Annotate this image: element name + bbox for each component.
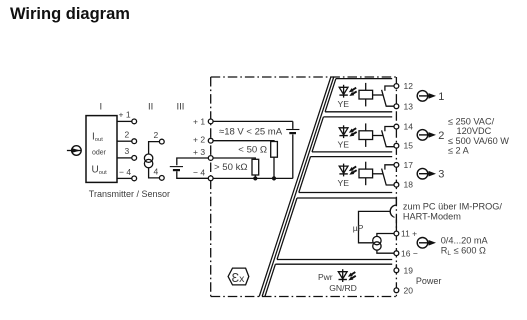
svg-text:12: 12 bbox=[404, 81, 414, 91]
column II wire top bbox=[149, 142, 160, 155]
terminal stub +1 bbox=[117, 120, 132, 122]
svg-text:3: 3 bbox=[438, 169, 444, 181]
channel 1 relay bbox=[339, 83, 394, 107]
barrier diagonal B bbox=[262, 77, 334, 297]
svg-text:< 50 Ω: < 50 Ω bbox=[238, 145, 267, 156]
svg-text:− 4: − 4 bbox=[119, 167, 131, 177]
wire +3 internal bbox=[211, 158, 256, 159]
terminal 20 bbox=[394, 288, 399, 293]
svg-text:HART-Modem: HART-Modem bbox=[403, 212, 461, 222]
wire +2 bbox=[211, 140, 274, 143]
battery III long plate bbox=[170, 166, 183, 168]
svg-text:0/4...20 mA: 0/4...20 mA bbox=[441, 236, 489, 246]
svg-text:16 −: 16 − bbox=[401, 248, 418, 258]
channel 3 box bottom bbox=[299, 192, 392, 194]
svg-text:+ 2: + 2 bbox=[193, 135, 205, 145]
analog output indicator bbox=[417, 238, 436, 249]
terminal 12 bbox=[394, 84, 399, 89]
svg-text:120VDC: 120VDC bbox=[457, 126, 492, 136]
wire +1 bbox=[211, 120, 293, 122]
connector arc bbox=[390, 205, 396, 217]
output 1 indicator bbox=[417, 91, 436, 102]
border left bbox=[210, 77, 212, 297]
terminal 18 bbox=[394, 182, 399, 187]
terminal stub 3 bbox=[117, 157, 132, 159]
terminal 16 bbox=[394, 251, 399, 256]
junction dot 1 bbox=[253, 176, 257, 180]
uP bracket bbox=[359, 211, 391, 242]
module left terminal +3 bbox=[208, 156, 213, 161]
internal battery long plate bbox=[286, 129, 299, 131]
svg-text:18: 18 bbox=[404, 180, 414, 190]
svg-text:17: 17 bbox=[404, 160, 414, 170]
terminal stub -4 bbox=[117, 177, 132, 179]
channel 1 box bottom bbox=[325, 111, 392, 113]
uP current source bbox=[373, 236, 381, 250]
svg-text:≤ 250 VAC/: ≤ 250 VAC/ bbox=[448, 117, 495, 127]
svg-text:14: 14 bbox=[404, 122, 414, 132]
svg-text:+ 1: + 1 bbox=[119, 110, 131, 120]
svg-text:YE: YE bbox=[338, 140, 350, 150]
junction dot 2 bbox=[272, 176, 276, 180]
svg-text:≤ 500 VA/60 W: ≤ 500 VA/60 W bbox=[448, 136, 509, 146]
stub 19 to box bbox=[395, 264, 397, 268]
wire -4 bottom bbox=[211, 177, 293, 179]
svg-text:+ 3: + 3 bbox=[193, 147, 205, 157]
channel 3 relay bbox=[339, 162, 394, 186]
svg-text:III: III bbox=[177, 102, 185, 113]
column II current source bbox=[144, 154, 152, 168]
channel 2 relay bbox=[339, 123, 394, 146]
svg-text:Power: Power bbox=[416, 276, 442, 286]
title bbox=[10, 5, 130, 24]
terminal 14 bbox=[394, 124, 399, 129]
border top bbox=[211, 76, 397, 78]
resistor >50 kohm bbox=[252, 159, 259, 175]
svg-text:1: 1 bbox=[438, 91, 444, 103]
svg-text:≤ 2 A: ≤ 2 A bbox=[448, 146, 470, 156]
uP box bottom bbox=[277, 259, 392, 261]
svg-text:2: 2 bbox=[154, 130, 159, 140]
wire 11 to current source bbox=[377, 234, 394, 237]
svg-text:15: 15 bbox=[404, 141, 414, 151]
wire +3 to battery bbox=[177, 158, 211, 165]
svg-text:20: 20 bbox=[404, 286, 414, 296]
svg-text:II: II bbox=[148, 102, 153, 113]
svg-text:3: 3 bbox=[125, 146, 130, 156]
wire current source to 16 bbox=[377, 250, 394, 253]
svg-text:− 4: − 4 bbox=[193, 168, 205, 178]
channel 2 box bottom bbox=[312, 151, 392, 153]
terminal 11 bbox=[394, 231, 399, 236]
svg-text:RL ≤ 600 Ω: RL ≤ 600 Ω bbox=[441, 245, 486, 256]
svg-text:I: I bbox=[100, 102, 103, 113]
barrier diagonal A bbox=[259, 77, 331, 297]
svg-text:Transmitter / Sensor: Transmitter / Sensor bbox=[89, 189, 170, 199]
channel 3 box left edge bbox=[299, 157, 311, 193]
channel 2 box top bbox=[323, 116, 392, 118]
svg-text:GN/RD: GN/RD bbox=[329, 283, 357, 293]
wire right edge with battery bbox=[292, 121, 294, 128]
svg-text:2: 2 bbox=[125, 130, 130, 140]
svg-text:13: 13 bbox=[404, 101, 414, 111]
svg-text:YE: YE bbox=[338, 99, 350, 109]
border bottom bbox=[211, 296, 397, 298]
terminal stub 2 bbox=[117, 140, 132, 142]
svg-text:4: 4 bbox=[154, 167, 159, 177]
output 3 indicator bbox=[417, 168, 436, 179]
svg-text:YE: YE bbox=[338, 178, 350, 188]
terminal 17 bbox=[394, 163, 399, 168]
column II terminal 4 bbox=[159, 176, 164, 181]
svg-text:> 50 kΩ: > 50 kΩ bbox=[214, 162, 248, 173]
module left terminal +1 bbox=[208, 119, 213, 124]
channel 1 box top bbox=[336, 78, 392, 80]
svg-text:oder: oder bbox=[92, 150, 107, 157]
connector wire to terminal 11 bbox=[395, 220, 397, 232]
channel 1 box left edge bbox=[325, 79, 336, 112]
battery III short plate bbox=[173, 169, 180, 171]
power LED bbox=[338, 269, 357, 282]
power box top bbox=[275, 263, 392, 265]
power box left edge bbox=[265, 264, 276, 296]
svg-text:11 +: 11 + bbox=[401, 229, 417, 239]
svg-text:+ 1: + 1 bbox=[193, 117, 205, 127]
svg-text:Ɛx: Ɛx bbox=[232, 271, 246, 285]
terminal 13 bbox=[394, 104, 399, 109]
output 2 indicator bbox=[417, 130, 436, 141]
terminal 15 bbox=[394, 143, 399, 148]
resistor <50 ohm bbox=[271, 142, 278, 158]
uP box top bbox=[297, 198, 396, 205]
channel 3 box top bbox=[311, 156, 393, 158]
module left terminal -4 bbox=[208, 176, 213, 181]
svg-text:19: 19 bbox=[404, 266, 414, 276]
border right bbox=[395, 77, 397, 297]
uP box left edge bbox=[277, 198, 297, 260]
svg-text:µP: µP bbox=[353, 223, 364, 233]
current source symbol left of box bbox=[67, 150, 81, 152]
internal battery short plate bbox=[289, 132, 296, 134]
transmitter box bbox=[86, 116, 117, 183]
Ex hexagon bbox=[228, 268, 249, 285]
column II terminal 2 bbox=[159, 139, 164, 144]
svg-text:zum PC über IM-PROG/: zum PC über IM-PROG/ bbox=[403, 202, 502, 212]
column II wire bottom bbox=[149, 168, 160, 178]
terminal 19 bbox=[394, 268, 399, 273]
svg-text:2: 2 bbox=[438, 130, 444, 142]
svg-text:≈18 V < 25 mA: ≈18 V < 25 mA bbox=[219, 127, 283, 138]
wire battery to -4 bbox=[177, 171, 211, 178]
module left terminal +2 bbox=[208, 138, 213, 143]
svg-text:Pwr: Pwr bbox=[318, 272, 333, 282]
channel 2 box left edge bbox=[312, 117, 323, 152]
